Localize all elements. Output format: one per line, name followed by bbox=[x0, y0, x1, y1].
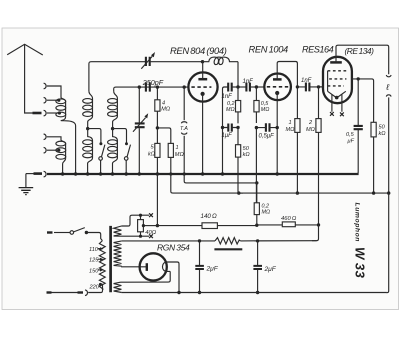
node SW2 bus bbox=[125, 172, 128, 175]
wire V3 screen to right column bbox=[352, 79, 374, 122]
resistor R2 5k bbox=[155, 128, 160, 174]
wire V4 filament bottom lead to W3 bbox=[121, 271, 171, 282]
wire C3 to tube V2 grid bbox=[250, 86, 265, 88]
wire main chassis bus bbox=[47, 173, 359, 175]
wire S3 tap bbox=[47, 112, 59, 114]
node VC2 bus bbox=[138, 172, 141, 175]
svg-text:kΩ: kΩ bbox=[379, 131, 387, 137]
resistor R7 1M bbox=[295, 119, 300, 194]
terminal L lower bbox=[386, 95, 391, 193]
wire humpot bottom stub with x bbox=[122, 232, 153, 238]
capacitor trimmer C1 on RF top wire bbox=[141, 52, 155, 69]
wire VC2 column bbox=[138, 87, 140, 173]
terminal TA lower bbox=[181, 133, 187, 174]
choke row wire bbox=[122, 240, 317, 242]
transformer core bars bbox=[109, 226, 112, 292]
node tap S2 bbox=[57, 99, 60, 102]
node L1b bus bbox=[61, 172, 64, 175]
tube V4 filament bbox=[162, 262, 166, 272]
tube V1 anode bbox=[198, 62, 207, 79]
tube V1 grid dashes bbox=[191, 86, 211, 88]
transformer secondary W3 tube filaments bbox=[114, 282, 122, 292]
transformer tap 220 bbox=[99, 283, 104, 286]
capacitor C2 1nF bbox=[228, 83, 232, 92]
resistor R8 2M bbox=[316, 87, 321, 225]
socket S3 bbox=[44, 110, 46, 116]
svg-text:4: 4 bbox=[162, 101, 165, 107]
node screen junction bbox=[357, 77, 360, 80]
svg-text:0,2: 0,2 bbox=[227, 101, 235, 107]
node V2 anode column grid row bbox=[296, 85, 299, 88]
node L1a bus bbox=[74, 172, 77, 175]
node L3b bus bbox=[111, 172, 114, 175]
tube V2 REN1004 envelope bbox=[264, 74, 291, 101]
tube V3 filament bbox=[328, 91, 346, 99]
node tube V1 anode / top wire bbox=[201, 60, 204, 63]
tube V1 cathode bbox=[201, 92, 205, 174]
inductor choke zigzag bbox=[215, 238, 240, 244]
tube V3 suppressor tie wire bbox=[327, 71, 329, 92]
node tap S5 bbox=[57, 149, 60, 152]
socket mains 2 bbox=[85, 290, 87, 296]
capacitor C5 0.5uF cathode bbox=[256, 123, 277, 132]
inductor L2b bbox=[83, 129, 93, 174]
svg-text:220: 220 bbox=[89, 284, 100, 290]
svg-text:ℓ: ℓ bbox=[385, 82, 389, 92]
capacitor C9 2uF bbox=[253, 241, 262, 293]
socket S4 bbox=[44, 134, 46, 140]
capacitor C6 1nF bbox=[297, 83, 323, 92]
tube V3 grid3 dashes bbox=[328, 85, 344, 87]
capacitor 250pF bbox=[146, 82, 150, 91]
capacitor variable VC2 bbox=[133, 113, 148, 132]
svg-text:(RE 134): (RE 134) bbox=[345, 46, 375, 56]
node column bus bbox=[221, 172, 224, 175]
svg-text:REN 1004: REN 1004 bbox=[249, 44, 289, 54]
resistor R3 1M bbox=[168, 143, 173, 173]
node L line heater C bbox=[387, 191, 390, 194]
wire mains to switch bbox=[54, 232, 70, 234]
svg-text:40Ω: 40Ω bbox=[145, 230, 156, 236]
tube V2 anode bbox=[273, 62, 297, 119]
tube V3 anode bbox=[330, 45, 389, 74]
capacitor C7 0.5uF screen bbox=[354, 79, 363, 174]
wire S2 tap bbox=[47, 99, 59, 101]
socket S2 bbox=[44, 97, 46, 103]
wire grid row: coil L3 to tube V1 bbox=[139, 86, 188, 88]
node humpot tap bbox=[156, 224, 159, 227]
node grid row 4M branch bbox=[156, 85, 159, 88]
wire 1nF left column to bus bbox=[223, 87, 229, 174]
tube V3 RES164 envelope bbox=[323, 57, 352, 103]
resistor R6 50k bbox=[236, 128, 244, 194]
inductor L1a antenna coil upper bbox=[56, 98, 66, 117]
capacitor C3 1nF bbox=[246, 83, 250, 92]
wire junction to R3 bbox=[157, 128, 170, 143]
node top-wire column bbox=[236, 85, 239, 88]
node V2 grid / R5 bbox=[255, 85, 258, 88]
bottom bus wire bbox=[122, 292, 387, 294]
resistor R9 50k bbox=[371, 122, 376, 193]
svg-text:kΩ: kΩ bbox=[243, 152, 251, 158]
resistor R10 40ohm humpot bbox=[138, 220, 158, 232]
socket S1 bbox=[44, 83, 46, 89]
tube V3 filament leads with x marks bbox=[330, 94, 344, 116]
svg-text:1: 1 bbox=[176, 145, 179, 151]
node C9 bottom bus bbox=[256, 291, 259, 294]
svg-text:460 Ω: 460 Ω bbox=[281, 216, 297, 222]
socket S6 ground/bus bbox=[44, 171, 46, 177]
tube V4 RGN354 envelope bbox=[140, 253, 167, 280]
node C5 left bbox=[255, 126, 258, 129]
switch SW2 bbox=[124, 142, 130, 173]
inductor L2a bbox=[83, 91, 93, 128]
terminal TA upper bbox=[181, 87, 187, 123]
node tap S3 bbox=[58, 111, 61, 114]
node R3 bus bbox=[169, 172, 172, 175]
node R9 heater line C bbox=[372, 191, 375, 194]
node L2 mid bbox=[86, 127, 89, 130]
node L2b bus bbox=[86, 172, 89, 175]
tube V4 anode plate bbox=[146, 263, 148, 271]
svg-text:110: 110 bbox=[89, 247, 99, 253]
wire antenna down-lead bbox=[25, 45, 33, 113]
svg-text:MΩ: MΩ bbox=[226, 107, 235, 113]
inductor L1b antenna coil lower bbox=[56, 140, 66, 159]
transformer tap 110 bbox=[98, 247, 104, 250]
wire RF top wire trimmer to anode node bbox=[150, 61, 203, 63]
svg-text:RES164: RES164 bbox=[302, 45, 334, 55]
svg-text:1nF: 1nF bbox=[301, 78, 312, 84]
node L3 mid bbox=[111, 127, 114, 130]
svg-text:140 Ω: 140 Ω bbox=[201, 213, 218, 220]
tube V3 grid2 dashes bbox=[329, 78, 346, 80]
terminal L upper bbox=[386, 75, 391, 77]
node R5 line B end bbox=[255, 181, 258, 184]
wire R3 to heater line C bbox=[171, 174, 177, 194]
node choke right / C9 bbox=[256, 239, 259, 242]
ground bbox=[19, 174, 34, 195]
resistor R5 0.5M bbox=[254, 87, 259, 123]
svg-text:μF: μF bbox=[347, 139, 355, 145]
node TA bus bbox=[183, 172, 186, 175]
wire humpot top stub with x bbox=[122, 213, 153, 226]
capacitor C8 2uF bbox=[195, 241, 204, 293]
svg-text:150: 150 bbox=[89, 268, 99, 274]
node R2 bus bbox=[156, 172, 159, 175]
node C8 bottom bus bbox=[198, 291, 201, 294]
svg-text:125: 125 bbox=[89, 258, 99, 264]
socket S5 bbox=[44, 147, 46, 153]
tube V2 grid dashes bbox=[267, 86, 289, 88]
node V4 filament bus bbox=[177, 291, 180, 294]
svg-text:0,5μF: 0,5μF bbox=[259, 134, 275, 140]
wire switch to primary bbox=[86, 233, 102, 241]
transformer tap 125 bbox=[98, 258, 104, 261]
svg-text:1nF: 1nF bbox=[243, 79, 254, 85]
node R8/R13 junction bbox=[317, 223, 320, 226]
node pentode grid / R8 bbox=[317, 85, 320, 88]
node switch contact bbox=[85, 231, 88, 234]
inductor L3a bbox=[108, 91, 118, 128]
plug mains 2 bbox=[78, 291, 84, 293]
wire C2 to node bbox=[232, 86, 247, 88]
svg-text:250pF: 250pF bbox=[142, 78, 164, 87]
mains terminal 1 plug bbox=[47, 231, 53, 233]
heater line B bbox=[190, 182, 257, 184]
resistor R13 460ohm bbox=[282, 222, 295, 227]
svg-text:50: 50 bbox=[379, 125, 386, 131]
svg-text:1μF: 1μF bbox=[222, 133, 233, 139]
svg-text:Lumophon: Lumophon bbox=[354, 203, 361, 243]
wire V4 filament top lead to bus bbox=[166, 262, 179, 292]
wire bus down to humpot row bbox=[156, 175, 158, 226]
wire 140ohm row bbox=[157, 225, 318, 227]
capacitor C4 1uF bbox=[223, 124, 239, 132]
heater line C bbox=[177, 192, 389, 194]
svg-text:MΩ: MΩ bbox=[306, 127, 316, 133]
tube V1 REN804 envelope bbox=[188, 72, 217, 101]
node R12 bottom junction bbox=[255, 224, 258, 227]
wire L line down right frame bbox=[387, 193, 389, 293]
plug antenna bbox=[33, 112, 42, 115]
wire L3 mid to switch SW2 bbox=[113, 129, 127, 145]
inductor L3b bbox=[108, 129, 118, 174]
transformer primary winding bbox=[99, 241, 105, 290]
wire L2 mid to switch SW1 bbox=[88, 129, 101, 145]
node R7 heater line C bbox=[296, 191, 299, 194]
transformer secondary W2 HV winding bbox=[114, 241, 122, 266]
svg-text:MΩ: MΩ bbox=[286, 127, 296, 133]
resistor R1 4M bbox=[155, 87, 160, 128]
wire S1 to coil L1a bbox=[47, 86, 61, 98]
inductor RF choke on top wire bbox=[203, 57, 239, 65]
svg-text:1nF: 1nF bbox=[222, 94, 233, 100]
wire R8 column down to choke row bbox=[312, 225, 319, 241]
wire V3 grid to C6 node bbox=[319, 86, 324, 88]
svg-text:MΩ: MΩ bbox=[161, 107, 171, 113]
wire W2 bottom to rectifier anode bbox=[122, 265, 147, 268]
node V2 cathode bus bbox=[276, 172, 279, 175]
node C5 right bbox=[276, 126, 279, 129]
svg-text:MΩ: MΩ bbox=[262, 210, 271, 216]
switch mains SW3 bbox=[70, 228, 85, 235]
svg-text:kΩ: kΩ bbox=[148, 152, 156, 158]
antenna bbox=[7, 44, 43, 55]
wire L3 top to detector grid wire bbox=[114, 87, 140, 91]
wire L2 top to RF top wire bbox=[89, 62, 145, 91]
resistor R4 0.2M bbox=[236, 87, 241, 123]
tube V3 grid1 dashes bbox=[328, 70, 347, 72]
svg-text:0,5: 0,5 bbox=[261, 101, 269, 107]
node C4 left bbox=[221, 126, 224, 129]
node grid row TA branch bbox=[183, 85, 186, 88]
resistor R11 140ohm bbox=[202, 223, 217, 229]
wire L1b to bus bbox=[63, 158, 66, 173]
svg-text:MΩ: MΩ bbox=[175, 152, 185, 158]
wire S5 tap bbox=[47, 149, 59, 151]
node SW1 bus bbox=[99, 172, 102, 175]
transformer tap 150 bbox=[98, 269, 104, 272]
wire S4 to coil L1b bbox=[47, 137, 61, 140]
wire ground to bus-plug bbox=[26, 173, 34, 175]
node V1 cathode bus bbox=[201, 172, 204, 175]
node VC2 branch bbox=[138, 85, 141, 88]
svg-text:50: 50 bbox=[243, 146, 250, 152]
resistor R12 0.2M output grid leak bbox=[254, 183, 259, 225]
wire socket to tap 220 bbox=[88, 284, 102, 292]
switch SW1 bbox=[99, 142, 105, 173]
node choke left / C8 bbox=[198, 239, 201, 242]
node R6 heater line C bbox=[237, 191, 240, 194]
wire TA column to heater line B bbox=[184, 174, 190, 183]
mains terminal 2 plug bbox=[47, 291, 52, 293]
svg-text:0,5: 0,5 bbox=[346, 132, 355, 138]
node C4 right bbox=[236, 126, 239, 129]
svg-text:REN 804 (904): REN 804 (904) bbox=[170, 45, 227, 56]
svg-text:RGN 354: RGN 354 bbox=[157, 243, 190, 253]
svg-text:2μF: 2μF bbox=[206, 265, 219, 272]
svg-text:W 33: W 33 bbox=[353, 247, 368, 279]
plug ground bbox=[34, 172, 43, 175]
wire L1a jog to bus bbox=[61, 117, 76, 174]
node R1/R2 junction bbox=[156, 126, 159, 129]
tube V2 cathode bbox=[275, 91, 279, 174]
svg-text:MΩ: MΩ bbox=[261, 107, 270, 113]
choke core bar bbox=[214, 248, 242, 250]
svg-text:1: 1 bbox=[289, 120, 292, 126]
transformer secondary W1 rectifier filament bbox=[114, 226, 122, 236]
svg-text:T.A: T.A bbox=[180, 126, 188, 132]
wire R5 column through bus to line B bbox=[255, 128, 257, 203]
wire mains 2 bbox=[52, 292, 78, 294]
wire top wire down to 1nF node bbox=[237, 62, 239, 87]
svg-text:2μF: 2μF bbox=[264, 266, 277, 273]
